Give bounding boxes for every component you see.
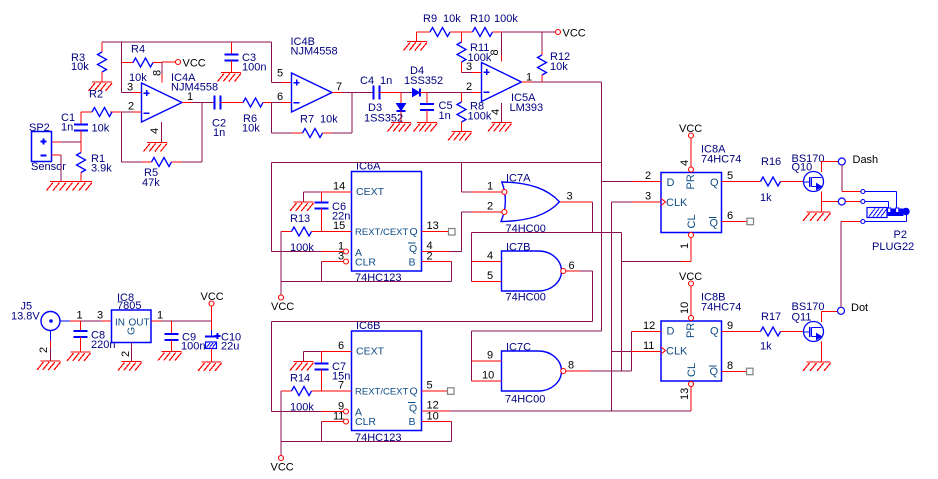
ground below C5 xyxy=(414,123,438,132)
wire IC7A pin1 input xyxy=(462,181,502,193)
svg-text:VCC: VCC xyxy=(563,28,586,40)
wire IC7B pin6 output xyxy=(566,260,593,322)
VCC symbol above IC8B xyxy=(679,271,702,286)
terminal circle Dot xyxy=(838,302,869,314)
svg-text:Dot: Dot xyxy=(851,302,868,314)
resistor R16 xyxy=(760,156,804,204)
ground below IC4A pin4 xyxy=(144,143,168,152)
resistor R5 xyxy=(122,158,203,190)
wire IC6B pin9 A input xyxy=(272,401,345,413)
svg-text:PLUG22: PLUG22 xyxy=(872,241,914,253)
wire IC7A pin2 input xyxy=(462,201,502,213)
wire Q11 drain to Dot xyxy=(822,312,838,323)
wire IC6A pin4 Qbar xyxy=(422,212,462,252)
wire IC4B pin5 from top rail xyxy=(272,42,292,83)
svg-text:D: D xyxy=(667,177,675,189)
svg-text:5: 5 xyxy=(277,68,283,80)
wire IC4A output node xyxy=(182,91,215,162)
terminal circle Dash xyxy=(838,154,878,166)
wire IC7C pin9 input xyxy=(472,350,502,362)
svg-text:11: 11 xyxy=(643,340,654,352)
capacitor C2 xyxy=(212,96,226,140)
connector P2 PLUG22 xyxy=(861,190,914,254)
svg-text:VCC: VCC xyxy=(201,291,224,303)
ground at IC6A CEXT xyxy=(290,202,314,211)
svg-text:6: 6 xyxy=(569,260,575,272)
resistor R17 xyxy=(760,311,804,353)
wire IC6B pin7 REXT/CEXT xyxy=(322,380,352,392)
resistor R2 xyxy=(81,89,112,135)
VCC symbol near R4 xyxy=(162,58,206,70)
IC6B 74HC123 monostable xyxy=(352,320,422,444)
svg-text:Q: Q xyxy=(409,243,417,255)
svg-text:Q11: Q11 xyxy=(792,312,812,324)
wire IC6B pin5 Q output xyxy=(422,380,448,392)
wire IC8 OUT to VCC xyxy=(151,310,212,322)
svg-text:13.8V: 13.8V xyxy=(11,311,40,323)
ground below IC8 xyxy=(118,362,142,371)
ground below D3 xyxy=(388,123,412,132)
capacitor C9 xyxy=(165,321,206,353)
wire IC6A pin14 CEXT xyxy=(304,181,352,193)
bubble IC7C output xyxy=(561,369,566,374)
wire IC7C out up to IC8B D xyxy=(631,332,633,372)
wire IC8A CL line xyxy=(622,238,692,262)
svg-text:5: 5 xyxy=(727,170,733,182)
svg-text:8: 8 xyxy=(489,49,501,55)
wire IC5A pin4 xyxy=(490,103,502,123)
svg-text:8: 8 xyxy=(152,70,164,76)
NAND gate IC7B 74HC00 xyxy=(502,242,562,304)
wire IC8 pin2 ground xyxy=(120,343,132,362)
wire IC6A pin1 A input xyxy=(272,241,345,253)
svg-text:1k: 1k xyxy=(760,341,772,353)
svg-text:2: 2 xyxy=(645,170,651,182)
ground below R9 left xyxy=(404,42,428,51)
svg-text:NJM4558: NJM4558 xyxy=(291,46,338,58)
wire C4 to D4 node xyxy=(380,92,413,94)
transistor Q10 BS170 xyxy=(792,153,825,192)
regulator IC8 7805 xyxy=(112,292,152,343)
NAND gate IC7A (negative-input OR symbol) 74HC00 xyxy=(501,173,560,236)
bubble IC6A CLR xyxy=(344,259,349,264)
svg-text:4: 4 xyxy=(487,250,493,262)
svg-text:13: 13 xyxy=(427,220,439,232)
wire IC4A feedback vertical xyxy=(121,112,123,162)
svg-text:74HC00: 74HC00 xyxy=(506,292,546,304)
VCC symbol top right xyxy=(556,28,586,40)
wire IC7C pin8 output xyxy=(566,360,632,372)
flip-flop IC8A 74HC74 xyxy=(661,144,741,233)
VCC symbol above IC8A xyxy=(679,123,702,138)
svg-text:IC7B: IC7B xyxy=(506,242,530,254)
wire IC7B out to IC6B A xyxy=(272,322,593,412)
wire IC8A pin3 CLK input xyxy=(612,191,662,203)
wire R14/CLR/B VCC net 2 xyxy=(281,391,452,456)
wire IC5A output row xyxy=(522,72,602,84)
svg-text:3: 3 xyxy=(97,310,103,322)
svg-text:4: 4 xyxy=(149,128,161,134)
svg-text:4: 4 xyxy=(679,160,691,166)
wire Q10 source to ground and common xyxy=(822,192,839,213)
svg-text:2: 2 xyxy=(128,101,134,113)
svg-text:100k: 100k xyxy=(494,13,518,25)
svg-text:3: 3 xyxy=(466,61,472,73)
svg-text:3: 3 xyxy=(645,191,651,203)
svg-text:22u: 22u xyxy=(221,341,239,353)
wire IC6A pin2 B xyxy=(422,251,452,282)
svg-text:PR: PR xyxy=(685,174,697,189)
wire IC7B pin4 input xyxy=(472,250,502,262)
wire IC8B pin9 Q output xyxy=(722,320,761,332)
svg-text:R16: R16 xyxy=(761,156,781,168)
wire IC6A pin15 REXT/CEXT xyxy=(322,220,352,232)
diode D3 1SS352 xyxy=(364,93,406,125)
svg-text:9: 9 xyxy=(727,320,733,332)
svg-text:Q: Q xyxy=(710,218,719,230)
wire common to plug contact 2 xyxy=(845,201,861,203)
wire IC4A pin4 xyxy=(149,122,162,143)
svg-text:13: 13 xyxy=(679,388,691,400)
wire IC7A out branch vertical x=621.5 xyxy=(621,233,623,372)
bubble IC8B CL xyxy=(679,382,694,401)
VCC symbol at regulator output xyxy=(201,291,224,321)
svg-text:74HC74: 74HC74 xyxy=(701,154,741,166)
bubble IC8A CL xyxy=(679,233,694,250)
capacitor C4 xyxy=(360,75,392,100)
svg-text:R9: R9 xyxy=(423,13,437,25)
svg-text:NJM4558: NJM4558 xyxy=(171,82,218,94)
svg-text:D: D xyxy=(667,326,675,338)
wire IC8B pin12 D input xyxy=(632,320,662,332)
svg-text:CLK: CLK xyxy=(666,346,688,358)
ground below IC5A pin4 xyxy=(488,123,512,132)
ground below C8 xyxy=(67,352,91,361)
svg-text:12: 12 xyxy=(643,320,655,332)
svg-text:LM393: LM393 xyxy=(510,102,544,114)
resistor R12 xyxy=(538,32,571,82)
wire IC4B pin6 input xyxy=(272,91,292,103)
svg-text:IC7C: IC7C xyxy=(506,342,531,354)
op-amp IC4B NJM4558 xyxy=(291,36,338,112)
svg-text:3: 3 xyxy=(567,191,573,203)
wire CEXT2 ground branch xyxy=(303,352,305,362)
wire Q10 drain to Dash xyxy=(822,162,839,173)
wire Dot up to plug contact 3 xyxy=(841,222,861,308)
svg-text:B: B xyxy=(409,257,416,269)
wire IC6B pin10 B xyxy=(422,411,452,442)
svg-text:P2: P2 xyxy=(894,229,907,241)
bubble IC7A input2 xyxy=(502,210,507,215)
capacitor C6 xyxy=(315,192,351,232)
ground below R8 xyxy=(448,132,472,141)
ground below R3 xyxy=(89,82,113,91)
wire IC4A pin2 input xyxy=(110,101,142,113)
VCC symbol below R13 xyxy=(271,295,294,313)
svg-text:B: B xyxy=(409,416,416,428)
wire IC4A pin8 power stub xyxy=(152,62,164,83)
wire IC5A output net vertical xyxy=(601,82,603,331)
wire J5 pin1 xyxy=(60,310,83,322)
bubble IC8B PR xyxy=(689,316,694,321)
svg-text:SP2: SP2 xyxy=(29,122,50,134)
wire IC4B output xyxy=(332,81,374,93)
ground below SP2 and R1 xyxy=(47,182,93,191)
svg-text:Q10: Q10 xyxy=(792,162,813,174)
svg-text:1SS352: 1SS352 xyxy=(404,75,443,87)
svg-text:1k: 1k xyxy=(760,192,772,204)
wire R4 branch vertical x=121.5 xyxy=(121,42,123,93)
wire top rail to IC4B pin5 xyxy=(232,41,272,43)
svg-text:10: 10 xyxy=(427,411,439,423)
svg-text:1: 1 xyxy=(157,310,163,322)
svg-text:Q: Q xyxy=(710,326,719,338)
svg-text:100n: 100n xyxy=(242,62,266,74)
resistor R6 xyxy=(221,98,272,135)
wire IC8B pin11 CLK input xyxy=(632,340,662,352)
capacitor C3 xyxy=(225,42,267,74)
svg-text:10k: 10k xyxy=(92,123,110,135)
svg-text:R13: R13 xyxy=(290,213,310,225)
svg-text:3.9k: 3.9k xyxy=(91,163,112,175)
svg-text:14: 14 xyxy=(333,181,345,193)
resistor R14 xyxy=(281,373,322,414)
ground below Q10 xyxy=(803,212,831,221)
bubble IC6B CLR xyxy=(344,419,349,424)
svg-text:1n: 1n xyxy=(61,122,73,134)
svg-text:2: 2 xyxy=(120,351,132,357)
svg-text:1: 1 xyxy=(187,91,193,103)
svg-text:7: 7 xyxy=(338,380,344,392)
wire IC6A pin13 Q output xyxy=(422,220,449,232)
svg-text:R17: R17 xyxy=(761,311,781,323)
svg-text:R14: R14 xyxy=(290,373,310,385)
wire IC6B pin11 CLR xyxy=(322,411,345,442)
wire IC8B CL to Qbar line xyxy=(690,387,692,412)
wire top rail y=42 xyxy=(102,41,272,43)
svg-text:6: 6 xyxy=(277,91,283,103)
svg-text:5: 5 xyxy=(427,380,433,392)
svg-text:Q: Q xyxy=(410,386,418,398)
resistor R9 xyxy=(423,13,462,37)
resistor R11 xyxy=(457,32,492,73)
svg-text:15: 15 xyxy=(333,220,345,232)
NAND gate IC7C 74HC00 xyxy=(502,342,562,406)
flip-flop IC8B 74HC74 xyxy=(661,292,741,382)
wire IC8A pin2 D input xyxy=(602,170,662,182)
svg-text:1n: 1n xyxy=(213,127,225,139)
svg-text:74HC00: 74HC00 xyxy=(506,223,546,235)
svg-text:10: 10 xyxy=(679,302,691,314)
svg-text:74HC74: 74HC74 xyxy=(701,302,741,314)
capacitor C5 xyxy=(420,93,453,123)
svg-text:IN: IN xyxy=(115,318,125,329)
wire IC7B pin5 input xyxy=(472,270,502,282)
connector J5 13.8V xyxy=(11,301,60,331)
svg-text:Q: Q xyxy=(710,177,719,189)
svg-text:47k: 47k xyxy=(142,177,160,189)
svg-text:Dash: Dash xyxy=(853,154,879,166)
resistor R1 xyxy=(77,142,113,182)
svg-text:CL: CL xyxy=(686,214,698,228)
svg-text:7: 7 xyxy=(336,81,342,93)
svg-text:100k: 100k xyxy=(290,242,314,254)
VCC symbol below R14 xyxy=(271,456,294,474)
open pin square IC8A Qbar xyxy=(747,218,754,225)
resistor R4 xyxy=(122,44,163,85)
wire top rail to VCC right xyxy=(502,31,556,33)
svg-text:IC7A: IC7A xyxy=(506,173,531,185)
resistor R10 xyxy=(462,13,519,37)
svg-text:11: 11 xyxy=(333,411,344,423)
wire Dash to plug contact xyxy=(842,165,861,192)
terminal circle common upper xyxy=(838,198,845,205)
svg-text:6: 6 xyxy=(338,340,344,352)
svg-text:2: 2 xyxy=(487,201,493,213)
capacitor C1 xyxy=(61,112,88,142)
wire IC5A pin8 power stub xyxy=(489,32,502,62)
svg-text:74HC123: 74HC123 xyxy=(355,272,401,284)
capacitor C7 xyxy=(315,352,351,392)
svg-text:REXT/CEXT: REXT/CEXT xyxy=(355,387,409,398)
wire IC5A out to IC7C inputs xyxy=(472,331,602,381)
bubble IC6A A xyxy=(344,249,349,254)
svg-text:VCC: VCC xyxy=(183,58,206,70)
ground below J5 xyxy=(37,361,61,370)
wire IC4B feedback vertical xyxy=(271,103,273,134)
comparator IC5A LM393 xyxy=(482,63,544,115)
svg-text:8: 8 xyxy=(727,360,733,372)
ground below Q11 xyxy=(803,362,831,371)
capacitor C8 xyxy=(74,321,116,352)
wire R13/CLR/B VCC net xyxy=(281,232,452,296)
svg-text:2: 2 xyxy=(466,81,472,93)
svg-text:Q: Q xyxy=(410,226,418,238)
wire SP2 minus to ground xyxy=(52,155,62,182)
capacitor C10 electrolytic xyxy=(205,321,241,362)
svg-text:1: 1 xyxy=(526,72,532,84)
svg-text:C4: C4 xyxy=(360,75,374,87)
wire CLK branch to IC8B xyxy=(612,351,632,353)
diode D4 1SS352 xyxy=(404,65,443,97)
wire IC7C pin10 input xyxy=(472,370,502,382)
wire Q11 source to ground xyxy=(821,342,823,363)
svg-text:CL: CL xyxy=(686,363,698,377)
svg-text:2: 2 xyxy=(427,251,433,263)
svg-text:REXT/CEXT: REXT/CEXT xyxy=(355,227,409,238)
svg-text:1: 1 xyxy=(487,181,493,193)
svg-text:10k: 10k xyxy=(71,61,89,73)
wire CLK net vertical xyxy=(611,202,613,411)
wire IC5A out to IC6A A row xyxy=(272,163,602,252)
bubble IC6B A xyxy=(344,409,349,414)
open pin square IC8B Qbar xyxy=(747,368,754,375)
open pin square IC6A Q xyxy=(449,229,456,236)
svg-text:1n: 1n xyxy=(439,110,451,122)
ground below C3 xyxy=(218,73,242,82)
svg-text:10k: 10k xyxy=(242,123,260,135)
svg-text:1: 1 xyxy=(679,243,691,249)
svg-text:100n: 100n xyxy=(181,341,205,353)
wire node to R8 and IC5A pin2 xyxy=(427,81,482,93)
svg-text:3: 3 xyxy=(127,82,133,94)
op-amp IC4A NJM4558 xyxy=(142,72,219,122)
open pin square IC6B Q xyxy=(448,388,455,395)
wire IC6B pin12 Qbar long line xyxy=(422,400,692,412)
resistor R3 xyxy=(71,42,107,82)
svg-text:1n: 1n xyxy=(380,75,392,87)
svg-text:CLR: CLR xyxy=(355,416,376,428)
wire IC8B pin10 PR xyxy=(679,286,691,316)
svg-text:8: 8 xyxy=(568,360,574,372)
svg-text:4: 4 xyxy=(490,109,502,115)
svg-text:6: 6 xyxy=(727,210,733,222)
svg-text:R4: R4 xyxy=(131,44,145,56)
node sensor junction / wire xyxy=(52,141,82,143)
svg-text:1: 1 xyxy=(77,310,83,322)
svg-text:PR: PR xyxy=(685,323,697,338)
svg-text:R2: R2 xyxy=(89,89,103,101)
wire IC5A pin3 input xyxy=(462,61,482,73)
svg-text:VCC: VCC xyxy=(271,301,294,313)
sensor SP2 xyxy=(29,122,66,173)
svg-text:100k: 100k xyxy=(468,111,492,123)
ground below C10 xyxy=(198,362,222,371)
svg-text:VCC: VCC xyxy=(271,462,294,474)
svg-text:10: 10 xyxy=(482,370,494,382)
svg-text:7805: 7805 xyxy=(117,300,141,312)
svg-text:G: G xyxy=(126,327,138,335)
svg-text:74HC00: 74HC00 xyxy=(505,394,545,406)
bubble IC8A PR xyxy=(689,167,694,172)
wire IC8B pin8 Qbar xyxy=(722,360,747,372)
wire C8 to IC8 IN xyxy=(81,310,112,322)
svg-text:R7: R7 xyxy=(300,114,314,126)
svg-text:10k: 10k xyxy=(550,61,568,73)
wire J5 pin2 to ground xyxy=(38,331,51,362)
wire IC7A pin3 output xyxy=(560,191,593,233)
svg-text:2: 2 xyxy=(38,347,50,353)
svg-text:5: 5 xyxy=(487,270,493,282)
wire CEXT ground branch xyxy=(303,192,305,202)
wire IC6A pin3 CLR xyxy=(322,251,345,282)
svg-text:CEXT: CEXT xyxy=(356,186,385,198)
IC6A 74HC123 monostable xyxy=(352,161,422,285)
wire IC4A pin3 input xyxy=(122,82,142,94)
svg-text:10k: 10k xyxy=(320,114,338,126)
wire IC6B pin6 CEXT xyxy=(304,340,352,352)
bubble IC7B output xyxy=(561,269,566,274)
resistor R7 xyxy=(272,93,353,138)
wire IC8A pin4 PR xyxy=(679,138,691,167)
svg-text:74HC123: 74HC123 xyxy=(355,432,401,444)
svg-text:R10: R10 xyxy=(470,13,490,25)
wire net IC7A out distribution xyxy=(472,233,622,282)
transistor Q11 BS170 xyxy=(792,301,825,342)
svg-text:CEXT: CEXT xyxy=(356,346,385,358)
ground below C9 xyxy=(158,352,182,361)
svg-text:10k: 10k xyxy=(443,13,461,25)
bubble IC7A input1 xyxy=(502,190,507,195)
svg-text:CLR: CLR xyxy=(355,257,376,269)
svg-text:Q: Q xyxy=(710,366,719,378)
ground at IC6B CEXT xyxy=(290,362,314,371)
resistor R8 xyxy=(457,93,492,132)
resistor R13 xyxy=(281,213,322,254)
wire IC8A pin6 Qbar xyxy=(722,210,748,222)
wire IC8A pin5 Q output xyxy=(722,170,761,182)
svg-text:CLK: CLK xyxy=(666,197,688,209)
